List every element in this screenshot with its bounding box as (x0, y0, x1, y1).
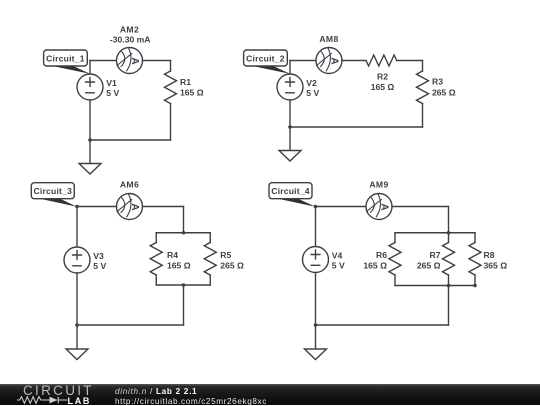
footer bar (0, 384, 540, 405)
svg-text:265 Ω: 265 Ω (417, 261, 441, 271)
wire AM6 to corner (143, 206, 184, 208)
resistor R4 (150, 243, 162, 276)
junction c4 rail bottom (447, 284, 451, 288)
svg-text:AM6: AM6 (120, 180, 139, 190)
svg-text:R6: R6 (376, 250, 387, 260)
svg-text:Circuit_1: Circuit_1 (46, 53, 85, 63)
voltage source V3 (64, 247, 90, 273)
svg-text:R3: R3 (432, 77, 443, 87)
junction c3 rail bottom (182, 283, 186, 287)
resistor R5 (204, 243, 216, 276)
wire R8 top lead (474, 233, 476, 243)
ground c3 (66, 349, 88, 360)
junction c3 rail top (182, 231, 186, 235)
wire bottom rail c4 (395, 285, 475, 287)
ammeter AM9 (366, 194, 392, 220)
wire top rail c4 (395, 232, 475, 234)
wire R7 bottom lead (448, 275, 450, 286)
wire V4 top lead (315, 207, 317, 247)
svg-text:265 Ω: 265 Ω (432, 87, 456, 97)
svg-text:R7: R7 (430, 250, 441, 260)
resistor R1 (165, 71, 177, 104)
svg-text:V2: V2 (306, 78, 317, 88)
wire R4 bottom lead (155, 275, 157, 285)
wire top right c1 (143, 60, 171, 62)
wire V3 top lead (76, 207, 78, 248)
CircuitLab logo wordmark (23, 383, 94, 398)
wire bottom c3 (77, 324, 184, 326)
wire R6 bottom lead (394, 275, 396, 286)
svg-text:-30.30 mA: -30.30 mA (110, 34, 151, 44)
junction c2 (288, 125, 292, 129)
ammeter AM6 (117, 194, 143, 220)
wire top rail c3 (156, 232, 210, 234)
svg-text:165 Ω: 165 Ω (371, 82, 395, 92)
svg-text:R4: R4 (167, 250, 178, 260)
svg-text:5 V: 5 V (332, 261, 345, 271)
wire AM9 to corner (392, 206, 449, 208)
resistor R7 (443, 243, 455, 276)
svg-text:265 Ω: 265 Ω (220, 261, 244, 271)
wire R7 top lead (448, 233, 450, 243)
resistor R3 (417, 71, 429, 104)
svg-text:AM9: AM9 (369, 180, 388, 190)
svg-text:5 V: 5 V (93, 261, 106, 271)
footer meta text (115, 387, 267, 406)
flag label Circuit_4 (269, 183, 316, 207)
svg-text:Circuit_3: Circuit_3 (34, 186, 73, 196)
svg-text:V1: V1 (106, 78, 117, 88)
svg-text:AM2: AM2 (120, 25, 139, 35)
wire bottom c4 (316, 324, 449, 326)
wire R2 to corner (397, 60, 423, 62)
wire top left c2 (290, 60, 316, 62)
wire V2 bottom lead (289, 100, 291, 127)
wire AM8 to R2 (342, 60, 366, 62)
wire R3 bottom lead (422, 104, 424, 128)
wire R1 top lead (170, 61, 172, 72)
svg-text:365 Ω: 365 Ω (484, 261, 508, 271)
wire R6 top lead (394, 233, 396, 243)
wire bottom c2 (290, 126, 423, 128)
wire feed down c3 (183, 207, 185, 233)
junction c4 top (314, 205, 318, 209)
wire V1 top stub (89, 61, 91, 75)
junction c3 bottom (75, 323, 79, 327)
wire bottom rail c3 (156, 284, 210, 286)
wire ground stem c4 (315, 325, 317, 349)
junction c4 bottom (314, 323, 318, 327)
svg-text:AM8: AM8 (319, 34, 338, 44)
wire feed down to bottom c4 (448, 286, 450, 326)
wire ground stem c3 (76, 325, 78, 349)
svg-text:165 Ω: 165 Ω (363, 261, 387, 271)
svg-text:165 Ω: 165 Ω (167, 261, 191, 271)
CircuitLab logo resistor-diode glyph (16, 395, 70, 405)
ground c4 (305, 349, 327, 360)
svg-text:V4: V4 (332, 251, 343, 261)
wire V3 bottom lead (76, 273, 78, 325)
wire R5 bottom lead (209, 275, 211, 285)
wire feed down c4 (448, 207, 450, 233)
CircuitLab logo LAB (68, 396, 92, 406)
svg-text:Circuit_4: Circuit_4 (271, 186, 310, 196)
ground c2 (279, 151, 301, 162)
junction c3 top (75, 205, 79, 209)
wire R8 bottom lead (474, 275, 476, 286)
junction c1 (88, 138, 92, 142)
junction c4 rail top (447, 231, 451, 235)
wire bottom c1 (90, 139, 171, 141)
wire ground stem c1 (89, 140, 91, 164)
svg-text:165 Ω: 165 Ω (180, 87, 204, 97)
resistor R8 (469, 243, 481, 276)
svg-text:R5: R5 (220, 250, 231, 260)
svg-text:V3: V3 (93, 251, 104, 261)
wire R1 bottom lead (170, 104, 172, 141)
svg-text:R1: R1 (180, 77, 191, 87)
svg-text:5 V: 5 V (306, 88, 319, 98)
wire feed down to bottom c3 (183, 285, 185, 325)
wire R3 top lead (422, 61, 424, 72)
svg-text:5 V: 5 V (106, 88, 119, 98)
flag label Circuit_1 (44, 50, 90, 74)
ground c1 (79, 164, 101, 175)
wire R5 top lead (209, 233, 211, 243)
wire V1 bottom lead (89, 100, 91, 140)
voltage source V4 (303, 247, 329, 273)
svg-text:Circuit_2: Circuit_2 (246, 53, 285, 63)
flag label Circuit_3 (31, 183, 77, 207)
ammeter AM2 (117, 48, 143, 74)
flag label Circuit_2 (244, 50, 290, 74)
wire top left c1 (90, 60, 117, 62)
wire ground stem c2 (289, 127, 291, 151)
voltage source V1 (77, 74, 103, 100)
wire top left c4 (316, 206, 367, 208)
svg-text:R2: R2 (377, 72, 388, 82)
junction c4 rail bottom right (473, 284, 477, 288)
resistor R6 (389, 243, 401, 276)
resistor R2 (366, 55, 397, 66)
wire top left c3 (77, 206, 117, 208)
ammeter AM8 (316, 48, 342, 74)
wire V2 top stub (289, 61, 291, 75)
wire R4 top lead (155, 233, 157, 243)
wire V4 bottom lead (315, 273, 317, 326)
voltage source V2 (277, 74, 303, 100)
svg-text:R8: R8 (484, 250, 495, 260)
